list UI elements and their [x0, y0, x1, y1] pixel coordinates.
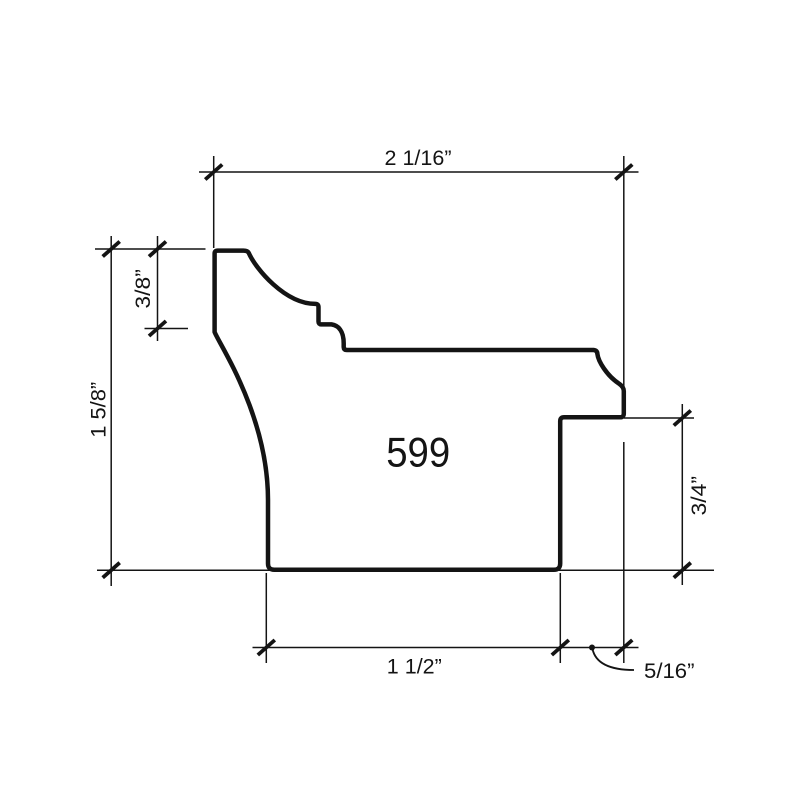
leader curve for 5/16	[593, 649, 635, 670]
extension line: vertical below bottom-left corner (x=266.3)	[265, 573, 267, 663]
tick: 3/4 top	[674, 411, 691, 426]
extension line: vertical right of top dim (x=623.8 upper part)	[623, 156, 625, 387]
tick: 1 5/8 bottom	[103, 563, 120, 578]
tick: bottom dim right (5/16)	[615, 640, 632, 655]
tick: 1 5/8 top	[103, 242, 120, 257]
dimension line: 2 1/16 top	[199, 171, 639, 173]
moulding profile outline 599	[215, 251, 624, 570]
dimension line: 3/4 right vertical	[681, 404, 683, 585]
svg-text:2 1/16”: 2 1/16”	[385, 147, 452, 170]
svg-text:599: 599	[386, 428, 450, 475]
extension line: step top (3/4 dim upper)	[624, 417, 694, 419]
dimension line: 3/8 left vertical	[157, 236, 159, 341]
tick: 3/8 top (on 3/8 dim line)	[149, 242, 166, 257]
svg-text:5/16”: 5/16”	[644, 660, 695, 683]
svg-text:1 5/8”: 1 5/8”	[87, 382, 110, 438]
extension line: bottom of profile (long, y=570)	[97, 569, 714, 571]
tick: bottom dim left (1 1/2)	[258, 640, 275, 655]
extension line: top of profile (left, shared by 3/8 and 1 5/8 dims)	[95, 248, 206, 250]
svg-text:3/4”: 3/4”	[688, 476, 711, 516]
extension line: vertical left of top dim (x=213.7)	[213, 156, 215, 248]
dimension line: bottom (1 1/2 and 5/16)	[253, 647, 639, 649]
tick: bottom dim middle (1 1/2 / 5/16)	[552, 640, 569, 655]
svg-text:1 1/2”: 1 1/2”	[387, 655, 442, 678]
tick: 3/4 bottom	[674, 563, 691, 578]
extension line: bottom of 3/8 dim	[145, 328, 189, 330]
leader dot for 5/16	[589, 645, 595, 651]
extension line: vertical below bottom-right corner (x=560.3)	[559, 573, 561, 663]
tick: top dim left	[205, 165, 222, 180]
extension line: vertical right x=623.8 lower part down to bottom dim	[623, 442, 625, 663]
tick: 3/8 bottom	[149, 321, 166, 336]
svg-text:3/8”: 3/8”	[132, 269, 155, 309]
tick: top dim right	[615, 165, 632, 180]
dimension line: 1 5/8 left vertical	[110, 236, 112, 586]
